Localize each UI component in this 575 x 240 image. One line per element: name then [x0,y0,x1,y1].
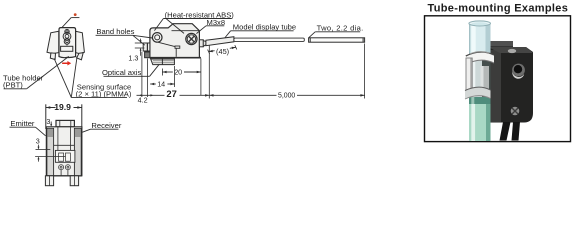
svg-text:Model display tube: Model display tube [233,22,296,31]
svg-text:Emitter: Emitter [10,119,35,128]
svg-text:Two, 2.2 dia.: Two, 2.2 dia. [317,24,364,33]
svg-text:Band holes: Band holes [96,27,134,36]
svg-text:M3x8: M3x8 [207,18,226,27]
svg-text:4.2: 4.2 [138,96,148,105]
svg-text:Optical axis: Optical axis [102,68,141,77]
svg-text:20: 20 [174,68,182,77]
svg-text:1.3: 1.3 [128,54,138,63]
svg-text:(2 × 11) (PMMA): (2 × 11) (PMMA) [76,89,132,98]
svg-text:3: 3 [46,117,50,126]
svg-text:Receiver: Receiver [91,121,121,130]
svg-text:Tube-mounting Examples: Tube-mounting Examples [428,2,569,14]
svg-text:14: 14 [157,80,165,89]
svg-text:(PBT): (PBT) [3,81,23,90]
svg-text:3: 3 [36,137,40,146]
svg-text:19.9: 19.9 [54,102,71,112]
svg-text:27: 27 [166,88,176,99]
svg-text:5,000: 5,000 [278,93,295,100]
svg-text:(45): (45) [216,47,229,56]
